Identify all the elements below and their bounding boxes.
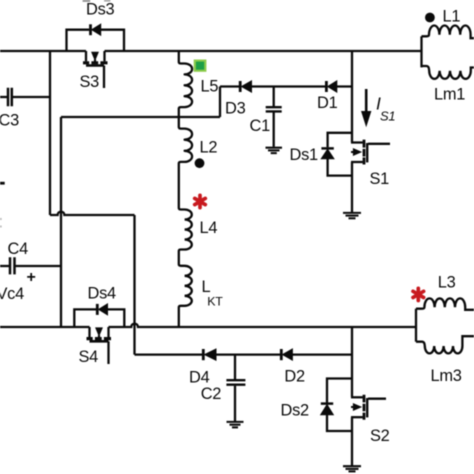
diode Ds4: [74, 304, 124, 327]
svg-text:Ds1: Ds1: [290, 146, 319, 164]
ground C1: [266, 148, 283, 153]
wire inner box vertical x61: [60, 117, 62, 326]
wire bottom rail right segment with hop over x134.5: [109, 324, 417, 327]
svg-text:Ds2: Ds2: [281, 402, 310, 420]
diode D2: [281, 349, 292, 360]
faint edge ticks: [0, 219, 2, 227]
svg-text:Lm3: Lm3: [431, 367, 462, 385]
wire top rail right segment: [105, 50, 422, 52]
svg-text:Ds3: Ds3: [86, 0, 115, 18]
svg-text:+: +: [27, 269, 36, 286]
wire D3/D1 row: [220, 85, 352, 87]
svg-text:S3: S3: [80, 73, 100, 91]
svg-text:KT: KT: [207, 295, 223, 309]
top edge gray smudges: [83, 0, 91, 2]
transistor S3: [83, 51, 108, 88]
svg-text:S4: S4: [79, 348, 99, 366]
svg-text:L: L: [202, 278, 211, 296]
capacitor C3: [0, 88, 50, 107]
svg-text:C1: C1: [250, 117, 271, 135]
wire horizontal y215 with hop over x61: [50, 212, 135, 215]
ground C2: [227, 422, 244, 428]
diode D4: [203, 349, 216, 360]
svg-text:L2: L2: [200, 138, 218, 156]
diode D3: [240, 81, 251, 92]
ground S2: [343, 466, 361, 471]
capacitor C1: [266, 87, 282, 147]
svg-text:D1: D1: [317, 94, 338, 112]
ground S1: [343, 213, 361, 218]
svg-text:L3: L3: [438, 273, 456, 291]
current arrow IS1: [362, 89, 371, 126]
inductor L4: [179, 208, 192, 265]
wire D4/D2 row: [135, 353, 353, 355]
svg-text:S1: S1: [380, 109, 395, 124]
svg-text:Ds4: Ds4: [88, 285, 117, 303]
inductor LKT: [179, 264, 192, 327]
coupled inductor Lm3 / L3: [416, 298, 474, 353]
wire top rail left segment: [0, 50, 86, 52]
svg-text:C2: C2: [201, 385, 222, 403]
coupled inductor Lm1 / L1: [422, 25, 474, 78]
capacitor C2: [226, 355, 245, 421]
transistor S2: [351, 395, 386, 466]
wire D3 riser: [219, 87, 221, 118]
svg-text:C3: C3: [0, 111, 19, 129]
svg-text:Lm1: Lm1: [434, 85, 465, 103]
wire left edge minus dash: [0, 182, 5, 185]
svg-text:D3: D3: [225, 99, 246, 117]
capacitor C4: [0, 257, 61, 274]
inductor L2: [179, 117, 192, 208]
red asterisk near L4: [195, 195, 206, 207]
svg-text:L5: L5: [201, 77, 219, 95]
svg-text:S1: S1: [370, 170, 390, 188]
red asterisk near L3: [413, 288, 424, 300]
svg-text:D4: D4: [189, 368, 210, 386]
node dot L2: [195, 158, 205, 168]
diode D1: [326, 81, 336, 92]
svg-text:D2: D2: [284, 368, 305, 386]
wire S1 drain vertical: [351, 51, 353, 143]
wire left vertical from top rail: [49, 51, 51, 215]
transistor S1: [351, 140, 390, 213]
diode Ds1: [321, 133, 352, 176]
wire S2 drain vertical: [351, 327, 353, 397]
green marker square: [194, 60, 207, 72]
svg-text:Vc4: Vc4: [0, 285, 24, 303]
transistor S4: [87, 327, 112, 364]
svg-text:S2: S2: [370, 427, 390, 445]
diode Ds3: [67, 24, 125, 51]
svg-text:C4: C4: [8, 240, 29, 258]
wire inner box top (node to L5/L2 junction): [61, 116, 220, 118]
svg-text:L1: L1: [443, 7, 461, 25]
inductor L5: [179, 51, 192, 117]
wire bottom rail left segment: [0, 326, 90, 328]
wire vertical x134.5 down to D4 row: [133, 215, 135, 355]
svg-text:L4: L4: [200, 219, 218, 237]
node dot L1: [425, 13, 435, 23]
diode Ds2: [321, 379, 352, 432]
